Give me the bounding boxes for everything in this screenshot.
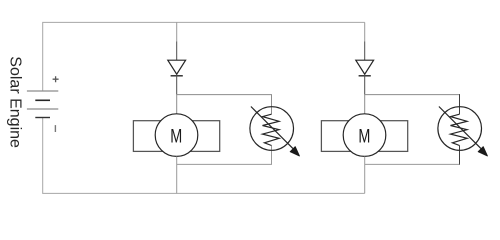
rheostat R1 arrow [251, 107, 300, 156]
wire node to motor M2 [364, 95, 366, 114]
wire rheostat R2 bottom branch [365, 163, 460, 165]
wire top bus [43, 22, 365, 91]
motor M1 frame [133, 121, 219, 152]
rheostat R1 zigzag [263, 114, 280, 145]
diode D2 [356, 60, 374, 76]
battery B1 (Solar Engine) [27, 76, 59, 132]
wire rheostat R1 bottom to motor branch [177, 146, 272, 165]
battery plate long top [27, 90, 58, 92]
svg-text:M: M [358, 125, 370, 147]
wire diode D1 top lead [176, 22, 178, 41]
branch 2 [321, 22, 487, 193]
wire branch to rheostat R1 top [177, 95, 272, 115]
diode D1 [168, 60, 186, 76]
branch 1 [133, 22, 299, 193]
motor M2 frame [321, 121, 407, 152]
wire diode D1 bottom lead [176, 74, 178, 94]
rheostat R2 zigzag [451, 114, 468, 145]
wire node to motor M1 [176, 95, 178, 114]
wire bottom bus [43, 118, 365, 194]
wire diode D2 top lead [364, 22, 366, 41]
rheostat R1 circle [250, 107, 294, 151]
wire motor M1 bottom lead [176, 156, 178, 193]
wire diode D2 bottom lead [364, 74, 366, 94]
motor M1 circle [155, 114, 198, 157]
wire motor M2 bottom lead [364, 156, 366, 193]
wire rheostat R2 bottom to motor branch [459, 146, 461, 165]
battery plate short [35, 99, 50, 101]
battery plate long [27, 108, 58, 110]
motor M2 circle [343, 114, 386, 157]
wire branch to rheostat R2 top [365, 94, 460, 96]
battery plate short bottom [35, 117, 50, 119]
rheostat R2 arrow [439, 107, 488, 156]
svg-text:Solar Engine: Solar Engine [7, 56, 24, 148]
svg-text:M: M [170, 125, 182, 147]
wire rheostat R2 top lead [459, 94, 461, 114]
battery minus sign [54, 125, 56, 132]
rheostat R2 circle [438, 107, 482, 151]
battery plus sign [53, 76, 59, 82]
